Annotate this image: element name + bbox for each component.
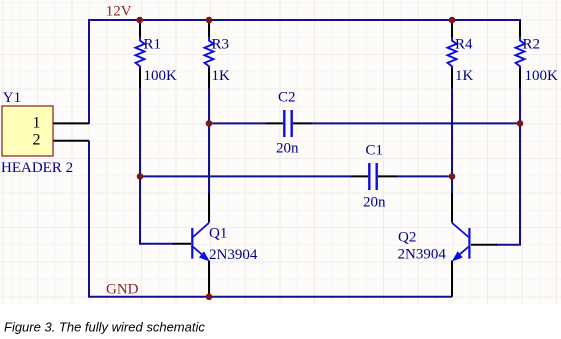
svg-text:2: 2 (33, 132, 41, 149)
svg-text:C2: C2 (278, 90, 296, 106)
svg-text:1K: 1K (212, 68, 231, 84)
svg-text:Y1: Y1 (3, 90, 21, 106)
svg-text:20n: 20n (276, 140, 299, 156)
svg-text:R3: R3 (212, 36, 230, 52)
svg-text:GND: GND (106, 282, 139, 298)
svg-text:1: 1 (33, 114, 41, 131)
svg-text:1K: 1K (455, 68, 474, 84)
svg-text:2N3904: 2N3904 (398, 247, 447, 263)
svg-text:R4: R4 (455, 36, 473, 52)
svg-text:100K: 100K (144, 68, 178, 84)
svg-text:20n: 20n (363, 195, 386, 211)
svg-text:HEADER 2: HEADER 2 (1, 160, 73, 176)
svg-text:12V: 12V (106, 4, 132, 20)
svg-text:100K: 100K (525, 68, 559, 84)
svg-text:Figure 3. The fully wired sche: Figure 3. The fully wired schematic (4, 320, 205, 335)
svg-text:R1: R1 (144, 36, 162, 52)
svg-text:C1: C1 (366, 142, 384, 158)
svg-text:2N3904: 2N3904 (209, 247, 258, 263)
svg-text:R2: R2 (523, 36, 541, 52)
svg-text:Q1: Q1 (209, 225, 227, 241)
svg-text:Q2: Q2 (398, 230, 416, 246)
